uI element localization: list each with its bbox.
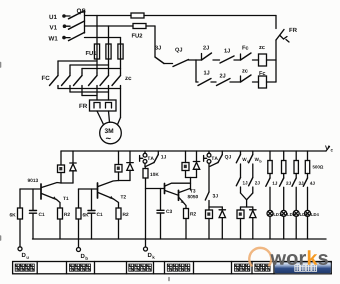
diode D2 [119,151,134,181]
contact 2J limit chain [249,178,260,194]
label 下降信号 [70,264,91,271]
watermark eworks text [270,250,328,265]
wire T2 base [79,188,98,190]
diode D3 [193,151,199,178]
relay coil 2J [115,151,122,181]
thermal relay FR [79,100,116,111]
wire ground rail [33,238,327,240]
resistor lamp branch 4 [305,151,323,178]
label 下限位 [255,264,270,271]
resistor R2 stage2 [116,208,128,239]
signal label table [13,262,332,274]
diode D5 [250,207,256,239]
resistor 6K input 2 [76,189,89,248]
diode D1 [61,151,76,183]
wire T3 base [146,188,165,190]
terminal Db [77,248,88,260]
resistor lamp branch 1 [268,151,272,178]
pushbutton TA stop [140,151,154,163]
label 红色显示 [295,265,317,272]
lamp LD3 [293,210,307,239]
contact Fc NC [241,46,259,60]
resistor 10K [143,163,159,247]
wire phase L3 [85,38,121,45]
wire T1 base [20,188,41,190]
resistor lamp branch 3 [294,151,298,178]
capacitor C3 [157,189,172,240]
lamp LD4 [305,210,319,239]
label 停止控制 [129,264,152,271]
contactor FC main contacts [42,73,82,86]
contact 1J holding [146,151,166,166]
label 上升信号 [15,264,34,271]
contactor ZC main contacts [89,73,132,86]
wire limit merge [241,193,253,207]
contact QJ holding [210,151,231,166]
contact 2J lamp [280,178,291,210]
fuse FU2a [131,13,144,18]
terminal Du [18,247,29,259]
capacitor C1 [30,189,45,239]
wire motor leads [97,111,121,125]
wire Vc supply rail [61,146,333,152]
contact Wu upper limit [236,151,249,178]
contact Wd lower limit [249,151,262,178]
resistor 6K input 1 [10,189,23,247]
wire start chain [208,163,210,192]
terminal V1 [50,24,71,29]
lamp LD1 [267,210,281,239]
scan marks [1,63,170,281]
contact 4J lamp [303,178,314,210]
wire control feed [154,26,156,57]
resistor R2 stage3 [184,209,196,240]
contact 2J lower [217,74,241,86]
fuse FU1 [86,44,123,59]
switch QS [69,9,86,41]
watermark eworks e swoosh [249,248,271,266]
capacitor C2 [88,189,103,239]
wire control right rail [275,16,277,83]
transistor T1 [28,179,69,208]
terminal Dk [144,247,155,259]
resistor R2 stage1 [58,208,70,239]
contact FR [276,28,297,42]
terminal W1 [49,36,71,41]
fuse FU2 [132,24,146,38]
motor 3M [100,122,122,144]
label 启动控制 [167,264,190,271]
pushbutton TA start [204,151,218,163]
contact 3J [155,46,173,64]
coil ZC [259,46,277,66]
relay coil 1J [58,151,65,183]
contact QJ [173,48,196,67]
wire phase L2 [85,26,156,44]
coil FC [259,71,277,88]
wire contactor output cross bus [58,86,121,118]
watermark eworks blue banner [275,262,332,273]
label 上限位 [235,264,250,271]
wire phase feeders to contactors [58,59,121,73]
contact 3J series [205,192,217,207]
relay coil 4J [237,207,244,239]
terminal U1 [49,14,70,19]
node control junction [195,60,197,82]
contact 1J [220,49,241,63]
transistor T2 [98,181,126,209]
contact 1J lamp [266,178,277,210]
relay coil QJ [206,207,223,239]
transistor T3 darlington [165,183,199,208]
diode D4 [219,207,225,239]
resistor lamp branch 2 [282,151,286,178]
contact 2J [196,46,220,60]
contact 1J limit chain [236,178,247,194]
wire phase L1 [85,16,277,45]
contact zc NC [241,70,259,83]
lamp LD2 [281,210,295,239]
relay coil 3J [182,151,197,190]
contact 3J lamp [292,178,303,210]
contact 1J lower [196,71,216,86]
